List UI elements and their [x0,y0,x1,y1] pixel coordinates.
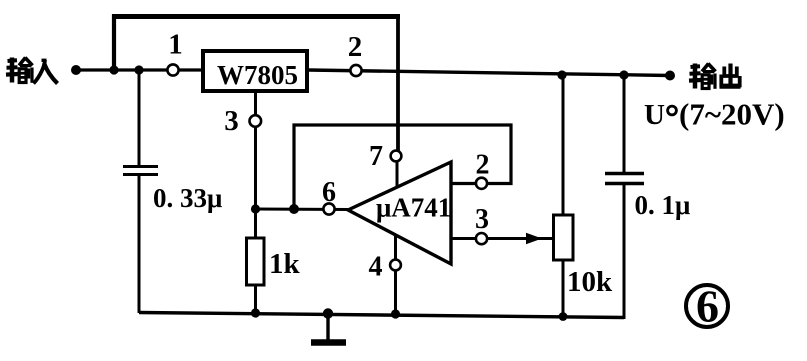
svg-text:W7805: W7805 [217,60,298,90]
svg-text:3: 3 [475,204,489,235]
svg-text:(7~20V): (7~20V) [679,97,785,132]
svg-text:μA741: μA741 [376,193,451,223]
svg-text:0. 1μ: 0. 1μ [635,190,691,220]
svg-text:3: 3 [224,105,239,137]
svg-text:1k: 1k [269,248,301,280]
svg-text:0. 33μ: 0. 33μ [153,183,222,213]
svg-text:6: 6 [322,177,336,208]
svg-text:U: U [644,99,665,131]
svg-text:7: 7 [369,141,383,172]
svg-text:2: 2 [348,31,363,63]
svg-text:4: 4 [369,252,383,283]
svg-text:10k: 10k [567,266,613,298]
svg-text:1: 1 [168,29,183,61]
svg-text:2: 2 [476,150,490,181]
svg-text:6: 6 [696,281,719,332]
